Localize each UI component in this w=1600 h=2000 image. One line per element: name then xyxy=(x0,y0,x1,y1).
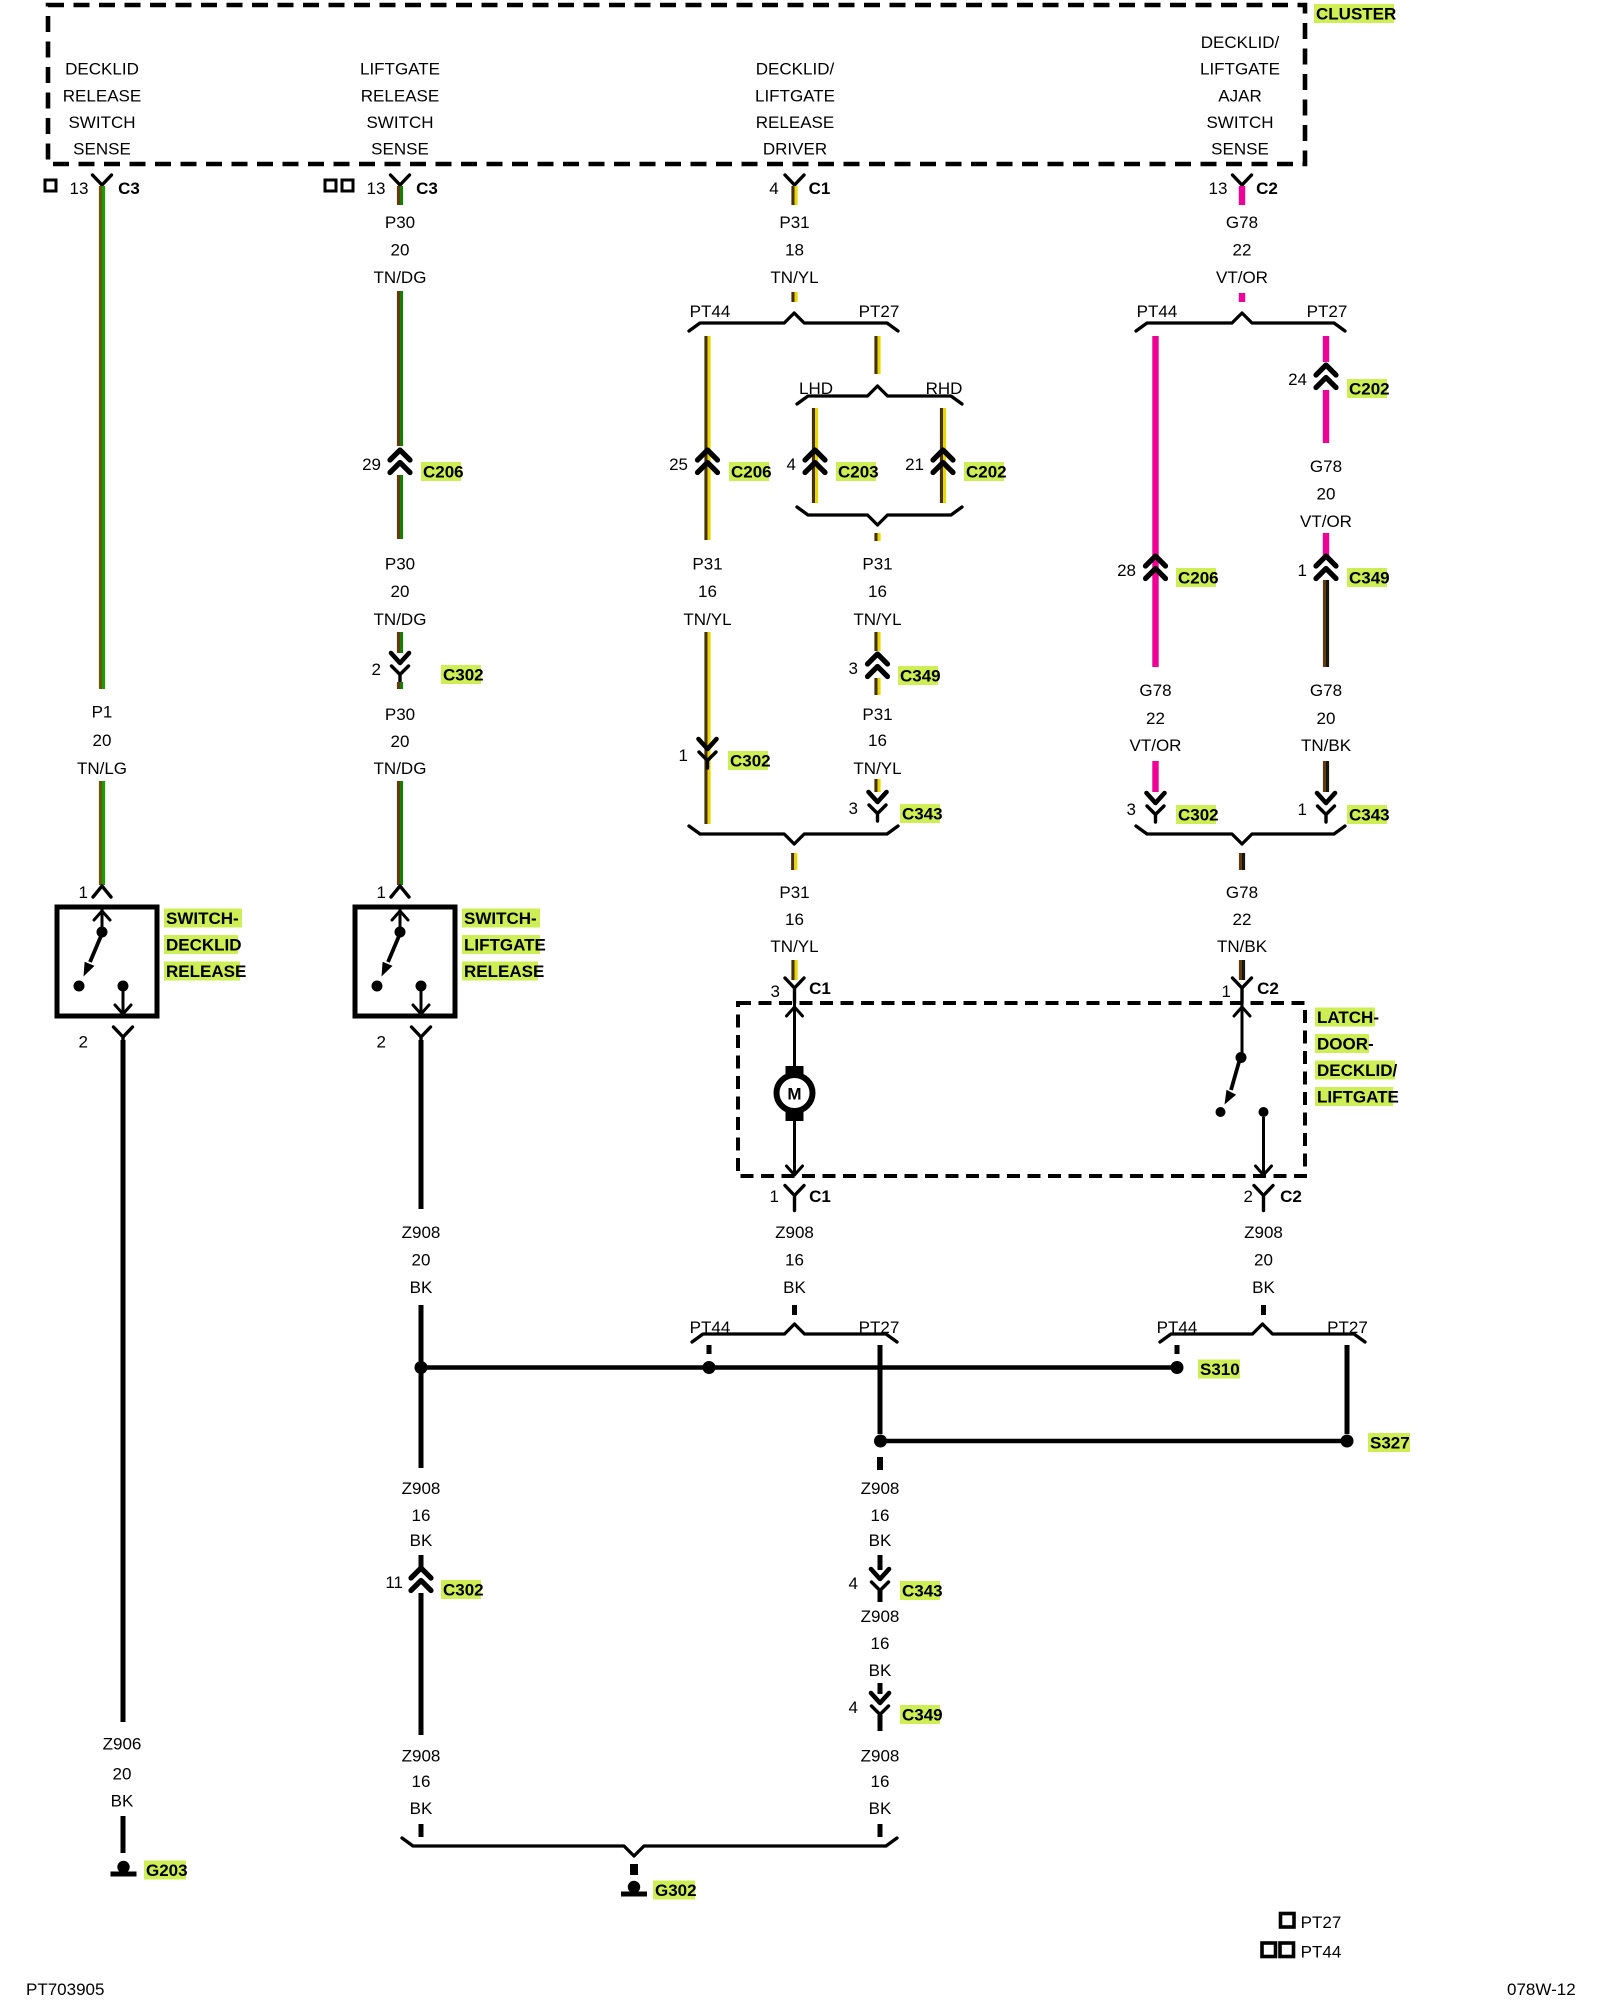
svg-text:16: 16 xyxy=(698,582,717,601)
svg-text:20: 20 xyxy=(1254,1251,1273,1270)
svg-text:13: 13 xyxy=(367,179,386,198)
svg-text:TN/YL: TN/YL xyxy=(770,937,818,956)
svg-text:Z908: Z908 xyxy=(861,1479,900,1498)
svg-text:SENSE: SENSE xyxy=(73,140,131,159)
svg-text:11: 11 xyxy=(385,1573,403,1592)
svg-text:SWITCH-: SWITCH- xyxy=(166,909,239,928)
svg-text:LIFTGATE: LIFTGATE xyxy=(1200,60,1280,79)
svg-text:1: 1 xyxy=(679,746,688,765)
svg-text:C302: C302 xyxy=(443,666,484,685)
svg-text:3: 3 xyxy=(849,659,858,678)
svg-text:18: 18 xyxy=(785,241,804,260)
svg-text:C349: C349 xyxy=(1349,569,1390,588)
svg-text:BK: BK xyxy=(783,1278,806,1297)
svg-text:P31: P31 xyxy=(692,555,722,574)
svg-text:DECKLID/: DECKLID/ xyxy=(1201,33,1280,52)
svg-text:1: 1 xyxy=(79,883,88,902)
svg-text:TN/LG: TN/LG xyxy=(77,759,127,778)
svg-text:3: 3 xyxy=(849,799,858,818)
svg-text:SWITCH: SWITCH xyxy=(1206,113,1273,132)
svg-text:RELEASE: RELEASE xyxy=(464,962,544,981)
svg-text:4: 4 xyxy=(849,1574,858,1593)
svg-text:AJAR: AJAR xyxy=(1218,86,1261,105)
svg-text:4: 4 xyxy=(769,179,778,198)
svg-text:RELEASE: RELEASE xyxy=(756,113,834,132)
svg-text:TN/DG: TN/DG xyxy=(374,759,427,778)
svg-text:Z908: Z908 xyxy=(402,1747,441,1766)
svg-text:P30: P30 xyxy=(385,213,415,232)
svg-text:20: 20 xyxy=(391,732,410,751)
svg-text:22: 22 xyxy=(1233,241,1252,260)
svg-text:C302: C302 xyxy=(443,1581,484,1600)
svg-text:P1: P1 xyxy=(92,703,113,722)
svg-text:20: 20 xyxy=(412,1251,431,1270)
svg-text:BK: BK xyxy=(410,1799,433,1818)
svg-text:16: 16 xyxy=(785,910,804,929)
svg-text:C343: C343 xyxy=(1349,806,1390,825)
svg-text:13: 13 xyxy=(1209,179,1228,198)
svg-text:DECKLID: DECKLID xyxy=(65,60,139,79)
svg-text:16: 16 xyxy=(871,1506,890,1525)
svg-text:22: 22 xyxy=(1233,910,1252,929)
svg-text:G78: G78 xyxy=(1310,681,1342,700)
svg-text:LIFTGATE: LIFTGATE xyxy=(360,60,440,79)
svg-text:C349: C349 xyxy=(902,1706,943,1725)
svg-text:TN/YL: TN/YL xyxy=(853,610,901,629)
svg-text:P31: P31 xyxy=(779,213,809,232)
svg-text:VT/OR: VT/OR xyxy=(1216,268,1268,287)
svg-text:M: M xyxy=(787,1085,801,1104)
svg-text:P31: P31 xyxy=(862,705,892,724)
svg-text:DECKLID: DECKLID xyxy=(166,936,242,955)
svg-text:LIFTGATE: LIFTGATE xyxy=(1317,1088,1399,1107)
svg-text:2: 2 xyxy=(79,1033,88,1052)
svg-text:13: 13 xyxy=(70,179,89,198)
svg-text:RELEASE: RELEASE xyxy=(166,962,246,981)
svg-text:VT/OR: VT/OR xyxy=(1130,736,1182,755)
svg-text:SWITCH-: SWITCH- xyxy=(464,909,537,928)
svg-text:PT44: PT44 xyxy=(690,302,731,321)
svg-text:C3: C3 xyxy=(416,179,438,198)
svg-text:SWITCH: SWITCH xyxy=(68,113,135,132)
svg-text:RHD: RHD xyxy=(926,379,963,398)
svg-text:C343: C343 xyxy=(902,1582,943,1601)
svg-text:C302: C302 xyxy=(1178,806,1219,825)
svg-text:RELEASE: RELEASE xyxy=(361,86,439,105)
svg-text:C202: C202 xyxy=(1349,380,1390,399)
svg-text:G78: G78 xyxy=(1226,883,1258,902)
svg-text:C343: C343 xyxy=(902,805,943,824)
svg-text:BK: BK xyxy=(869,1799,892,1818)
svg-text:1: 1 xyxy=(1298,800,1307,819)
svg-text:16: 16 xyxy=(871,1772,890,1791)
svg-text:LIFTGATE: LIFTGATE xyxy=(464,936,546,955)
svg-text:TN/BK: TN/BK xyxy=(1301,736,1352,755)
svg-text:Z908: Z908 xyxy=(775,1223,814,1242)
svg-text:PT27: PT27 xyxy=(1307,302,1348,321)
svg-text:3: 3 xyxy=(771,982,780,1001)
svg-text:C2: C2 xyxy=(1256,179,1278,198)
svg-text:PT44: PT44 xyxy=(1137,302,1178,321)
svg-text:PT27: PT27 xyxy=(859,302,900,321)
svg-text:S310: S310 xyxy=(1200,1360,1240,1379)
svg-text:16: 16 xyxy=(412,1772,431,1791)
svg-text:C206: C206 xyxy=(731,463,772,482)
svg-text:20: 20 xyxy=(391,582,410,601)
svg-text:G78: G78 xyxy=(1139,681,1171,700)
svg-text:TN/DG: TN/DG xyxy=(374,610,427,629)
svg-text:LIFTGATE: LIFTGATE xyxy=(755,86,835,105)
svg-text:20: 20 xyxy=(1317,485,1336,504)
svg-text:C349: C349 xyxy=(900,667,941,686)
svg-text:S327: S327 xyxy=(1370,1434,1410,1453)
svg-text:TN/DG: TN/DG xyxy=(374,268,427,287)
svg-text:TN/BK: TN/BK xyxy=(1217,937,1268,956)
svg-text:PT27: PT27 xyxy=(1327,1318,1368,1337)
svg-text:20: 20 xyxy=(1317,709,1336,728)
svg-text:Z908: Z908 xyxy=(402,1479,441,1498)
svg-text:PT703905: PT703905 xyxy=(26,1980,104,1999)
svg-text:PT27: PT27 xyxy=(1301,1913,1342,1932)
svg-text:CLUSTER: CLUSTER xyxy=(1316,5,1396,24)
svg-text:BK: BK xyxy=(410,1278,433,1297)
svg-text:1: 1 xyxy=(1222,982,1231,1001)
svg-text:DECKLID/: DECKLID/ xyxy=(1317,1061,1398,1080)
svg-text:C206: C206 xyxy=(423,463,464,482)
svg-text:Z908: Z908 xyxy=(861,1607,900,1626)
svg-text:1: 1 xyxy=(770,1187,779,1206)
svg-text:PT44: PT44 xyxy=(1157,1318,1198,1337)
svg-text:P30: P30 xyxy=(385,555,415,574)
svg-text:PT27: PT27 xyxy=(859,1318,900,1337)
svg-text:P31: P31 xyxy=(862,555,892,574)
svg-text:SENSE: SENSE xyxy=(371,140,429,159)
svg-text:16: 16 xyxy=(785,1251,804,1270)
svg-text:4: 4 xyxy=(849,1698,858,1717)
svg-text:TN/YL: TN/YL xyxy=(683,610,731,629)
svg-text:C202: C202 xyxy=(966,463,1007,482)
svg-text:20: 20 xyxy=(391,241,410,260)
svg-text:SENSE: SENSE xyxy=(1211,140,1269,159)
svg-text:G78: G78 xyxy=(1226,213,1258,232)
svg-text:Z908: Z908 xyxy=(861,1747,900,1766)
svg-text:P30: P30 xyxy=(385,705,415,724)
svg-text:C302: C302 xyxy=(730,752,771,771)
svg-text:LHD: LHD xyxy=(799,379,833,398)
svg-text:P31: P31 xyxy=(779,883,809,902)
svg-text:16: 16 xyxy=(412,1506,431,1525)
svg-text:C2: C2 xyxy=(1257,979,1279,998)
svg-text:LATCH-: LATCH- xyxy=(1317,1008,1379,1027)
svg-text:C3: C3 xyxy=(118,179,140,198)
svg-text:RELEASE: RELEASE xyxy=(63,86,141,105)
svg-text:Z908: Z908 xyxy=(1244,1223,1283,1242)
svg-text:DOOR-: DOOR- xyxy=(1317,1035,1374,1054)
svg-text:G302: G302 xyxy=(655,1881,697,1900)
svg-text:G203: G203 xyxy=(146,1861,188,1880)
svg-text:DECKLID/: DECKLID/ xyxy=(756,60,835,79)
svg-text:20: 20 xyxy=(113,1765,132,1784)
svg-text:078W-12: 078W-12 xyxy=(1507,1980,1576,1999)
svg-text:TN/YL: TN/YL xyxy=(853,759,901,778)
svg-text:22: 22 xyxy=(1146,709,1165,728)
svg-text:DRIVER: DRIVER xyxy=(763,140,827,159)
svg-text:PT44: PT44 xyxy=(1301,1943,1342,1962)
svg-text:28: 28 xyxy=(1117,561,1136,580)
svg-text:C1: C1 xyxy=(809,1187,831,1206)
svg-text:29: 29 xyxy=(362,455,381,474)
svg-text:C2: C2 xyxy=(1280,1187,1302,1206)
svg-text:C1: C1 xyxy=(809,179,831,198)
svg-text:21: 21 xyxy=(905,455,924,474)
svg-text:BK: BK xyxy=(1252,1278,1275,1297)
svg-text:16: 16 xyxy=(871,1634,890,1653)
svg-text:BK: BK xyxy=(869,1661,892,1680)
svg-text:BK: BK xyxy=(869,1531,892,1550)
svg-text:TN/YL: TN/YL xyxy=(770,268,818,287)
svg-text:BK: BK xyxy=(410,1531,433,1550)
svg-text:1: 1 xyxy=(1298,561,1307,580)
svg-text:G78: G78 xyxy=(1310,457,1342,476)
svg-text:2: 2 xyxy=(377,1033,386,1052)
svg-text:1: 1 xyxy=(377,883,386,902)
svg-text:4: 4 xyxy=(787,455,796,474)
svg-text:16: 16 xyxy=(868,731,887,750)
svg-text:C203: C203 xyxy=(838,463,879,482)
svg-text:SWITCH: SWITCH xyxy=(366,113,433,132)
svg-text:16: 16 xyxy=(868,582,887,601)
svg-text:24: 24 xyxy=(1288,370,1307,389)
svg-text:C1: C1 xyxy=(809,979,831,998)
svg-text:BK: BK xyxy=(111,1792,134,1811)
svg-text:20: 20 xyxy=(93,731,112,750)
svg-text:Z908: Z908 xyxy=(402,1223,441,1242)
svg-text:C206: C206 xyxy=(1178,569,1219,588)
svg-text:VT/OR: VT/OR xyxy=(1300,512,1352,531)
svg-text:PT44: PT44 xyxy=(690,1318,731,1337)
svg-text:2: 2 xyxy=(1244,1187,1253,1206)
svg-text:Z906: Z906 xyxy=(103,1735,142,1754)
svg-text:25: 25 xyxy=(669,455,688,474)
svg-text:2: 2 xyxy=(372,660,381,679)
svg-text:3: 3 xyxy=(1127,800,1136,819)
